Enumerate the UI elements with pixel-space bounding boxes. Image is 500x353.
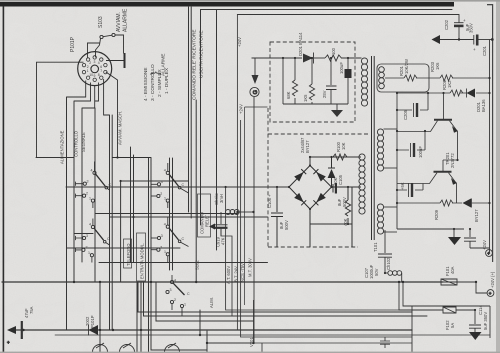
svg-text:V201: V201	[249, 337, 254, 347]
svg-text:9: 9	[94, 74, 96, 78]
svg-text:1: 1	[89, 197, 91, 201]
svg-text:C: C	[182, 183, 185, 187]
svg-text:D201 BA114: D201 BA114	[298, 32, 303, 56]
svg-text:C: C	[187, 292, 190, 296]
svg-text:3: 3	[170, 288, 172, 292]
svg-text:4: 4	[164, 223, 166, 227]
svg-text:1K5: 1K5	[303, 94, 308, 102]
svg-text:50V: 50V	[374, 268, 379, 276]
svg-text:2: 2	[160, 192, 162, 196]
svg-text:AVVIAM. MASCH.: AVVIAM. MASCH.	[118, 111, 123, 145]
svg-text:2: 2	[86, 192, 88, 196]
svg-text:47K: 47K	[221, 237, 226, 245]
svg-text:COMANDO RELEʼ RICEVITORE: COMANDO RELEʼ RICEVITORE	[192, 29, 198, 100]
svg-text:8: 8	[98, 73, 100, 77]
svg-text:+5K: +5K	[400, 182, 405, 190]
svg-text:+: +	[487, 251, 490, 256]
svg-text:1: 1	[88, 251, 90, 255]
svg-text:100: 100	[331, 47, 336, 55]
svg-text:4: 4	[174, 279, 176, 283]
svg-text:+: +	[489, 291, 492, 296]
svg-text:1K6: 1K6	[435, 62, 440, 70]
svg-text:SEGNALE: SEGNALE	[81, 132, 86, 152]
svg-text:7: 7	[100, 69, 102, 73]
svg-text:3: 3	[161, 180, 163, 184]
svg-text:500V: 500V	[284, 220, 289, 230]
svg-text:2: 2	[87, 65, 89, 69]
svg-text:A.T. 600V: A.T. 600V	[226, 266, 231, 284]
svg-text:100uF: 100uF	[339, 62, 344, 74]
svg-text:1: 1	[184, 303, 186, 307]
svg-text:3: 3	[94, 60, 96, 64]
svg-text:G: G	[253, 90, 259, 94]
svg-text:ALIM.: ALIM.	[209, 297, 214, 308]
svg-text:1: 1	[164, 250, 166, 254]
svg-text:USCITA RICEVITORE: USCITA RICEVITORE	[199, 30, 205, 78]
svg-text:4: 4	[164, 169, 166, 173]
svg-text:BY127: BY127	[305, 140, 310, 153]
svg-text:10: 10	[89, 73, 93, 77]
svg-text:AVVIAM.: AVVIAM.	[116, 12, 122, 32]
svg-text:RELEʼ: RELEʼ	[205, 215, 210, 227]
svg-text:C: C	[107, 237, 110, 241]
svg-text:C106 +: C106 +	[267, 194, 272, 208]
svg-text:TELEFONO: TELEFONO	[126, 243, 131, 266]
svg-text:S102: S102	[195, 260, 200, 270]
svg-text:+24V (+): +24V (+)	[490, 271, 495, 288]
svg-text:ALIMENTAZIONE: ALIMENTAZIONE	[60, 130, 65, 164]
svg-text:M.T. 300V: M.T. 300V	[248, 258, 253, 277]
svg-text:1K2: 1K2	[447, 80, 452, 88]
svg-text:3: 3	[161, 234, 163, 238]
svg-text:25V: 25V	[322, 90, 327, 98]
svg-text:3 - CONTROLLO: 3 - CONTROLLO	[150, 64, 156, 101]
svg-text:500V: 500V	[342, 197, 347, 207]
svg-text:2N3772: 2N3772	[450, 153, 455, 168]
svg-text:1: 1	[87, 69, 89, 73]
svg-text:+24V: +24V	[239, 104, 244, 114]
svg-text:75A: 75A	[29, 306, 34, 314]
svg-text:ALLARME: ALLARME	[161, 54, 167, 76]
svg-text:C105: C105	[338, 174, 343, 185]
svg-text:C: C	[109, 183, 112, 187]
svg-text:BA136: BA136	[481, 99, 486, 112]
svg-text:CONTROLLO: CONTROLLO	[74, 130, 79, 157]
svg-text:ALLARME: ALLARME	[123, 8, 129, 32]
svg-text:P101P: P101P	[90, 315, 95, 328]
svg-text:+: +	[7, 340, 10, 345]
svg-text:P101P: P101P	[70, 36, 76, 52]
svg-text:68K: 68K	[286, 91, 291, 99]
svg-text:C: C	[182, 237, 185, 241]
svg-text:2: 2	[86, 246, 88, 250]
svg-text:10K: 10K	[341, 142, 346, 150]
svg-text:3: 3	[86, 234, 88, 238]
svg-text:+24V: +24V	[237, 37, 242, 47]
svg-text:2: 2	[160, 246, 162, 250]
svg-text:NCS -75V: NCS -75V	[240, 263, 245, 282]
svg-text:C202: C202	[444, 19, 449, 30]
svg-text:40A: 40A	[450, 266, 455, 274]
svg-text:2: 2	[174, 298, 176, 302]
svg-text:C201: C201	[482, 45, 487, 56]
svg-text:6: 6	[100, 65, 102, 69]
svg-text:10K/2W: 10K/2W	[404, 59, 409, 74]
svg-text:R209: R209	[434, 209, 439, 220]
svg-text:4: 4	[91, 169, 93, 173]
svg-text:S103: S103	[98, 16, 104, 28]
svg-text:2: 2	[89, 61, 91, 65]
svg-text:+24V: +24V	[482, 240, 487, 250]
svg-text:1: 1	[164, 197, 166, 201]
svg-text:3mH: 3mH	[219, 194, 224, 203]
svg-text:T101: T101	[373, 242, 378, 252]
svg-text:3: 3	[87, 180, 89, 184]
svg-text:40K: 40K	[343, 218, 348, 226]
svg-text:BY127: BY127	[474, 209, 479, 222]
svg-text:350V: 350V	[469, 23, 474, 33]
svg-text:+: +	[473, 47, 476, 52]
svg-text:100uF: 100uF	[418, 146, 423, 158]
svg-text:Ch102: Ch102	[386, 257, 391, 270]
svg-text:4 - EMISSIONE: 4 - EMISSIONE	[143, 67, 149, 101]
svg-text:B.T. 24V: B.T. 24V	[234, 266, 239, 282]
svg-text:ENTRATA MODUL.: ENTRATA MODUL.	[140, 243, 145, 279]
svg-text:4: 4	[89, 223, 91, 227]
svg-text:5A: 5A	[450, 323, 455, 328]
svg-text:C205: C205	[403, 109, 408, 120]
svg-text:+: +	[463, 18, 466, 23]
svg-text:5uF 350V: 5uF 350V	[483, 312, 488, 330]
